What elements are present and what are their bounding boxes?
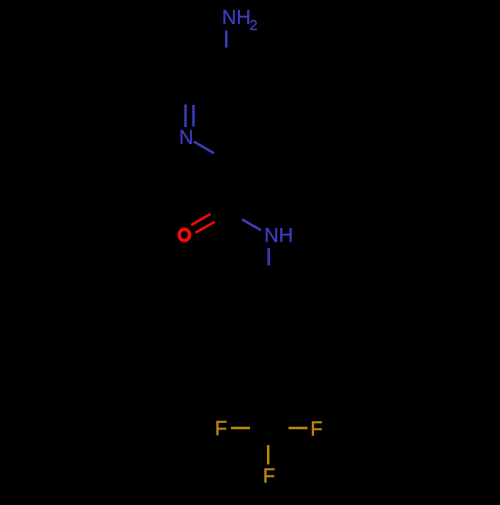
svg-text:N: N — [179, 127, 193, 149]
svg-text:NH: NH — [264, 225, 293, 247]
svg-text:F: F — [310, 419, 322, 441]
svg-text:NH: NH — [222, 7, 251, 29]
svg-text:F: F — [215, 418, 227, 440]
svg-text:F: F — [263, 465, 275, 487]
svg-text:2: 2 — [250, 18, 258, 34]
